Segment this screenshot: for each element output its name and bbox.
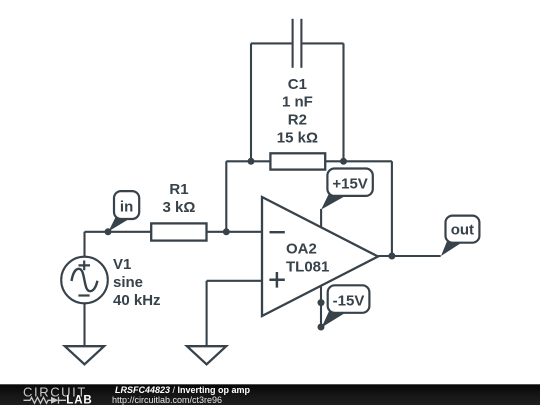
op-amp OA2 <box>262 197 378 316</box>
net flag -15V <box>322 285 370 327</box>
net flag out <box>441 216 479 256</box>
label C1 value <box>282 76 313 111</box>
svg-text:LAB: LAB <box>66 395 92 405</box>
label R2 value <box>277 111 318 146</box>
wire V1 bottom <box>83 303 85 346</box>
voltage source V1 <box>61 257 108 304</box>
svg-text:40 kHz: 40 kHz <box>113 292 161 309</box>
footer bar <box>0 384 540 405</box>
ground 2 <box>187 346 226 364</box>
pin V+ stub <box>320 209 322 228</box>
node junction output <box>388 253 395 260</box>
svg-text:http://circuitlab.com/ct3re96: http://circuitlab.com/ct3re96 <box>112 395 222 405</box>
wire V1 top <box>83 232 85 257</box>
svg-text:C1: C1 <box>288 76 307 93</box>
wire ground 2 vertical <box>206 281 208 346</box>
label R1 value <box>163 181 196 216</box>
svg-text:sine: sine <box>113 274 143 291</box>
ground 1 <box>65 346 104 364</box>
svg-text:-15V: -15V <box>333 292 365 309</box>
wire feedback horizontal <box>226 160 270 162</box>
net flag in <box>109 191 140 231</box>
svg-text:1 nF: 1 nF <box>282 94 313 111</box>
pin V- stub <box>320 285 322 327</box>
node in dot <box>105 228 112 235</box>
node junction C1-right <box>340 158 347 165</box>
svg-text:15 kΩ: 15 kΩ <box>277 130 318 147</box>
svg-text:R1: R1 <box>169 181 188 198</box>
net flag +15V <box>321 169 373 210</box>
svg-text:OA2: OA2 <box>286 240 317 257</box>
resistor R1 <box>151 223 206 240</box>
svg-text:V1: V1 <box>113 256 131 273</box>
svg-text:TL081: TL081 <box>286 259 329 276</box>
wire input to R1 <box>85 231 152 233</box>
node junction inverting input <box>223 228 230 235</box>
wire feedback right vertical <box>391 161 393 256</box>
wire C1 right vertical <box>342 43 344 161</box>
wire C1 left vertical <box>250 43 252 161</box>
capacitor C1 <box>251 19 344 68</box>
wire R1 to op-amp inverting input <box>207 231 263 233</box>
label V1 value <box>113 256 161 309</box>
svg-text:R2: R2 <box>288 111 307 128</box>
svg-text:+15V: +15V <box>332 176 367 193</box>
wire to op-amp non-inverting input <box>207 280 262 282</box>
footer title text <box>112 385 251 405</box>
svg-text:LRSFC44823 / Inverting op amp: LRSFC44823 / Inverting op amp <box>115 385 251 395</box>
wire op-amp output <box>378 255 441 257</box>
wire feedback left vertical <box>225 161 227 232</box>
resistor R2 <box>270 153 325 169</box>
svg-text:3 kΩ: 3 kΩ <box>163 199 196 216</box>
svg-text:out: out <box>451 221 474 238</box>
label OA2 <box>286 240 329 275</box>
logo resistor-diode symbol <box>24 397 67 404</box>
node junction V- pin <box>318 299 325 306</box>
node junction C1-left <box>248 158 255 165</box>
svg-text:in: in <box>120 199 133 216</box>
node junction -15V attach <box>318 324 325 331</box>
